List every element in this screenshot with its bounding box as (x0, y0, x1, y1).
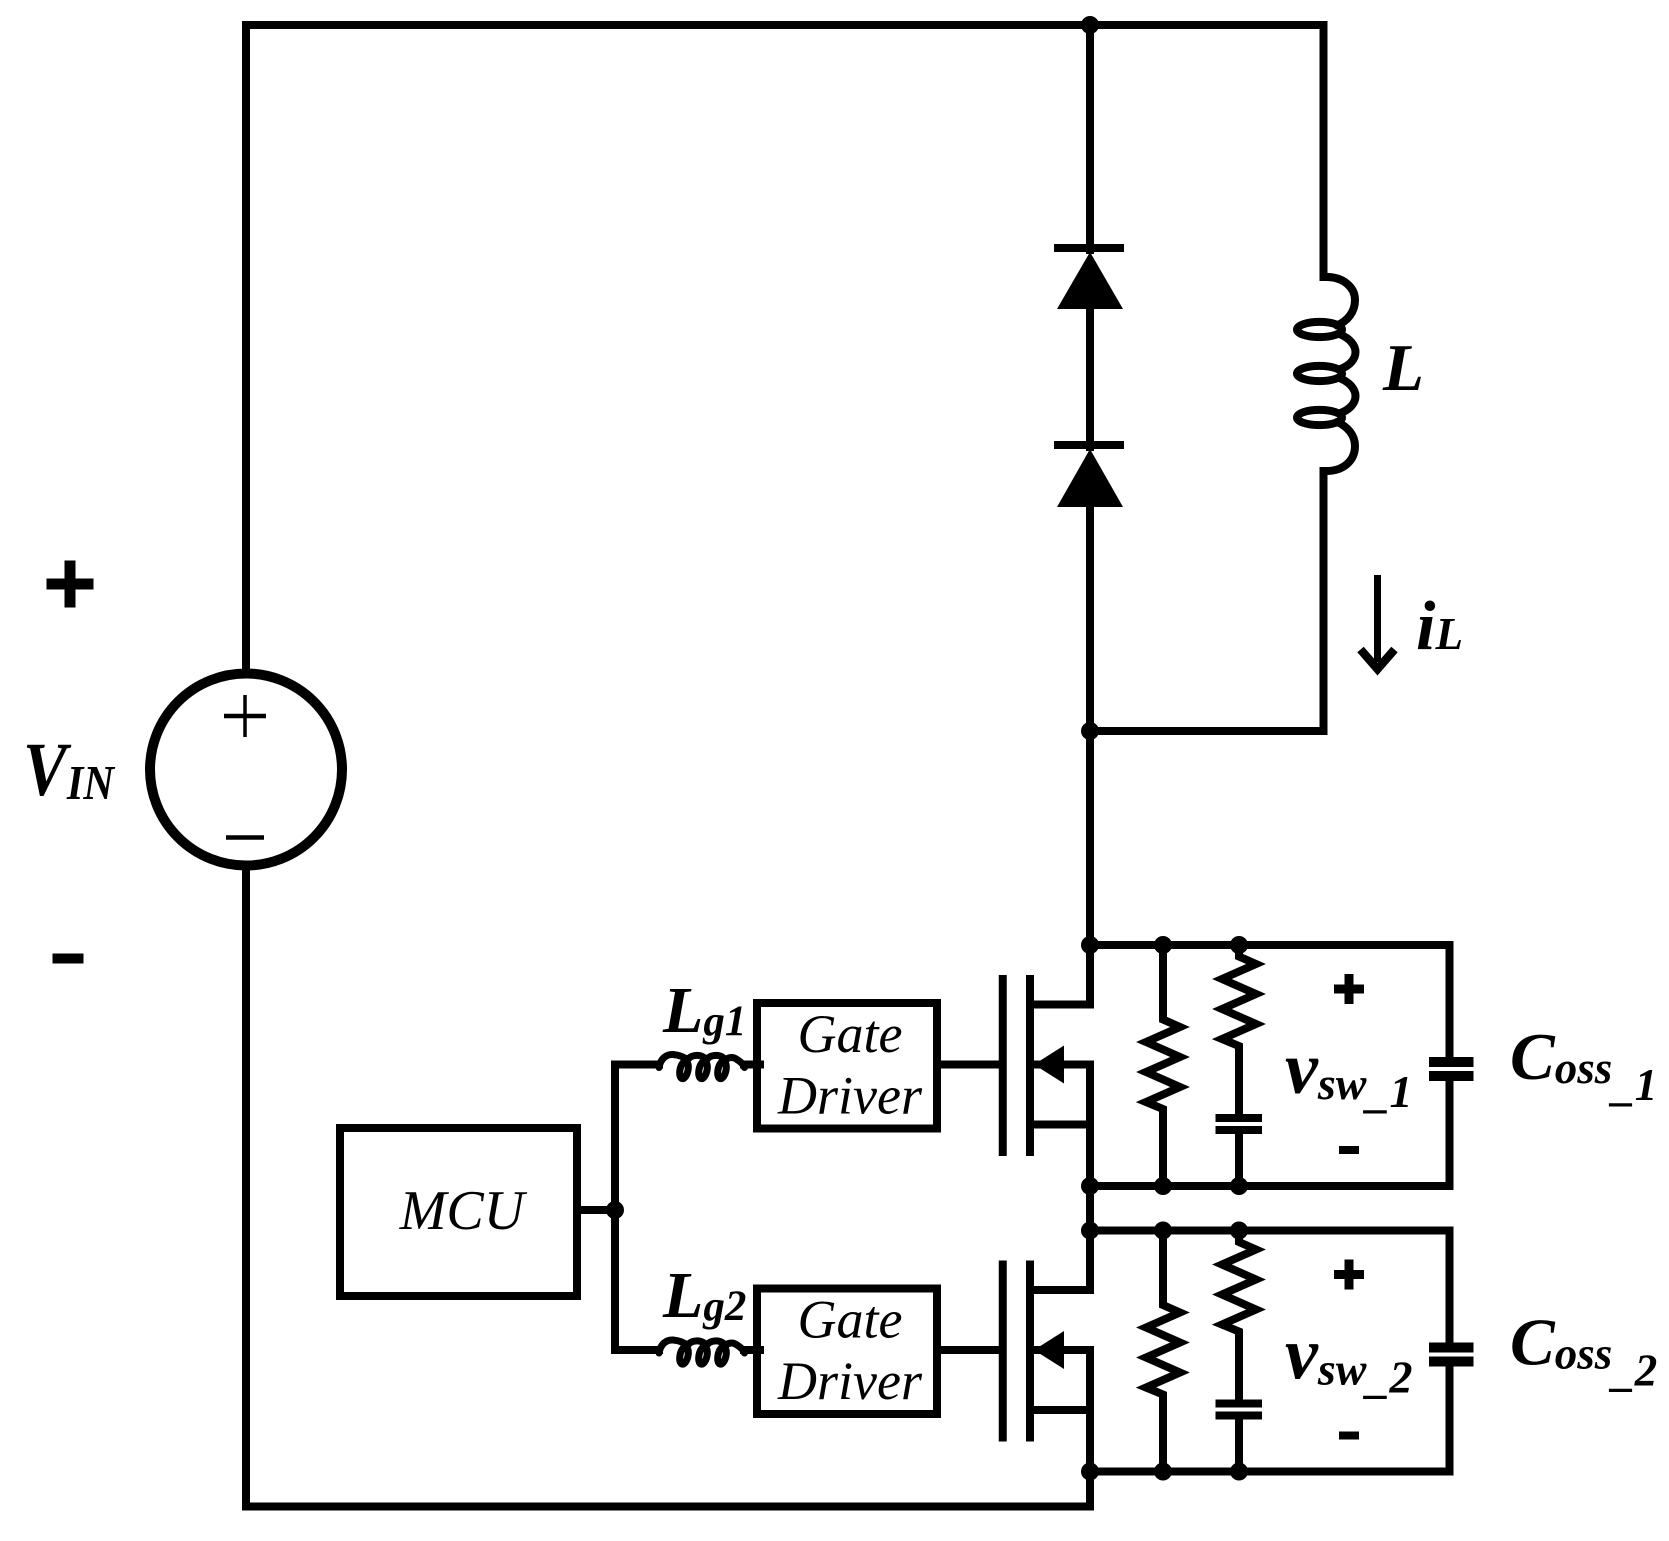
current arrow iL (1374, 575, 1381, 662)
wire: MCU output to gate branch junction (577, 1206, 615, 1214)
label: + (vsw_2 polarity) (1334, 1270, 1364, 1279)
transistor Q2 source lead (1030, 1406, 1090, 1414)
block Gate Driver 2 (box) (757, 1289, 937, 1415)
wire: cell 1 right side upper (1446, 945, 1454, 1057)
voltage source VIN (circle symbol) (150, 674, 342, 866)
wire: VIN- down the left side and bottom return to switch chain (246, 871, 1090, 1507)
node: cell 2 bottom rail / R junction (1154, 1463, 1172, 1481)
node: cell 1 top rail / R junction (1154, 936, 1172, 954)
wire: inductor bottom to switching node (1090, 471, 1324, 731)
inductor Lg2 (gate loop inductor) (659, 1340, 745, 1353)
block MCU (box) (340, 1128, 577, 1296)
wire: gate branch vertical (611, 1065, 619, 1350)
wire: Lg2 to Gate Driver 2 (744, 1346, 760, 1354)
svg-text:Gate: Gate (798, 1290, 903, 1350)
node: cell 1 bottom rail / RC junction (1230, 1177, 1248, 1195)
transistor Q1 gate bar (999, 975, 1007, 1156)
resistor R1 (parallel bleeder) (1146, 945, 1180, 1186)
wire: branch to Lg1 (615, 1061, 659, 1069)
node: gate branch junction (606, 1201, 624, 1219)
svg-text:Gate: Gate (798, 1004, 903, 1064)
wire: cell 1 bottom rail (1090, 1182, 1450, 1190)
node: cell 1 bottom rail / source junction (1081, 1177, 1099, 1195)
resistor R2 (parallel bleeder) (1146, 1231, 1180, 1472)
svg-text:MCU: MCU (399, 1180, 528, 1242)
transistor Q1 body arrow (1034, 1046, 1064, 1084)
wire: Gate Driver 1 output to Q1 gate (937, 1061, 1002, 1069)
node: cell 2 top rail / drain junction (1081, 1222, 1099, 1240)
wire: snubber capacitor to cell 1 bottom rail (1235, 1134, 1243, 1186)
VIN internal + mark (224, 714, 266, 719)
node: cell 2 bottom rail / RC junction (1230, 1463, 1248, 1481)
svg-text:L: L (1382, 331, 1424, 405)
svg-text:Driver: Driver (777, 1066, 923, 1126)
wire: top rail from VIN+ to inductor branch corner (246, 25, 1324, 669)
diode D1 (upper) (1054, 244, 1124, 252)
label: + (VIN polarity, outside) (47, 579, 94, 590)
wire: Gate Driver 2 output to Q2 gate (937, 1346, 1002, 1354)
node: cell 1 top rail / drain junction (1081, 936, 1099, 954)
wire: Lg1 to Gate Driver 1 (744, 1061, 760, 1069)
capacitor Cs2 (snubber capacitor) (1216, 1400, 1263, 1408)
wire: diode chain top segment (1086, 25, 1094, 250)
wire: cell 2 right side upper (1446, 1231, 1454, 1343)
node: cell 2 top rail / R junction (1154, 1222, 1172, 1240)
capacitor Coss_2 (1429, 1343, 1474, 1353)
wire: cell 2 right side lower (1446, 1367, 1454, 1472)
label: - (VIN polarity, outside) (53, 954, 84, 964)
node: junction top rail / diode chain (1081, 16, 1099, 34)
diode D2 (lower) (1054, 441, 1124, 449)
transistor Q1 body arrow lead (1034, 1065, 1090, 1187)
transistor Q2 body arrow (1034, 1331, 1064, 1369)
wire: cell 1 top rail (1090, 941, 1450, 949)
transistor Q1 drain lead (1030, 945, 1090, 1005)
capacitor Cs1 (snubber capacitor) (1216, 1114, 1263, 1122)
inductor L (coil humps) (1324, 277, 1356, 471)
label: - (vsw_2 polarity) (1339, 1432, 1359, 1440)
transistor Q2 body arrow lead (1034, 1350, 1090, 1472)
node: cell 1 bottom rail / R junction (1154, 1177, 1172, 1195)
node: cell 2 bottom rail / source junction (1081, 1463, 1099, 1481)
transistor Q2 channel bar (1026, 1261, 1034, 1442)
wire: Q1 source to Q2 drain (inter-cell link) (1086, 1186, 1094, 1231)
inductor L (coil loop 2) (1297, 366, 1342, 381)
resistor Rs2 (snubber resistor) (1222, 1231, 1256, 1400)
inductor L (coil loop 3) (1297, 410, 1342, 425)
svg-text:Driver: Driver (777, 1351, 923, 1411)
node: switching node junction (diode chain / inductor return) (1081, 722, 1099, 740)
transistor Q1 channel bar (1026, 975, 1034, 1156)
transistor Q2 gate bar (999, 1261, 1007, 1442)
node: cell 1 top rail / RC junction (1230, 936, 1248, 954)
wire: cell 2 bottom rail (1090, 1468, 1450, 1476)
transistor Q2 drain lead (1030, 1231, 1090, 1291)
resistor Rs1 (snubber resistor) (1222, 945, 1256, 1114)
inductor L (coil loop 1) (1297, 322, 1342, 337)
inductor Lg1 (gate loop inductor) (659, 1054, 745, 1067)
wire: between diodes (1086, 305, 1094, 447)
transistor Q1 source lead (1030, 1121, 1090, 1129)
wire: diode chain to switching node (1086, 503, 1094, 945)
wire: snubber capacitor to cell 2 bottom rail (1235, 1420, 1243, 1472)
capacitor Coss_1 (1429, 1057, 1474, 1067)
wire: branch to Lg2 (615, 1346, 659, 1354)
VIN internal - mark (226, 835, 264, 840)
label: - (vsw_1 polarity) (1339, 1146, 1359, 1154)
wire: cell 2 top rail (1090, 1227, 1450, 1235)
node: cell 2 top rail / RC junction (1230, 1222, 1248, 1240)
wire: cell 1 right side lower (1446, 1081, 1454, 1186)
block Gate Driver 1 (box) (757, 1003, 937, 1129)
label: + (vsw_1 polarity) (1334, 985, 1364, 994)
